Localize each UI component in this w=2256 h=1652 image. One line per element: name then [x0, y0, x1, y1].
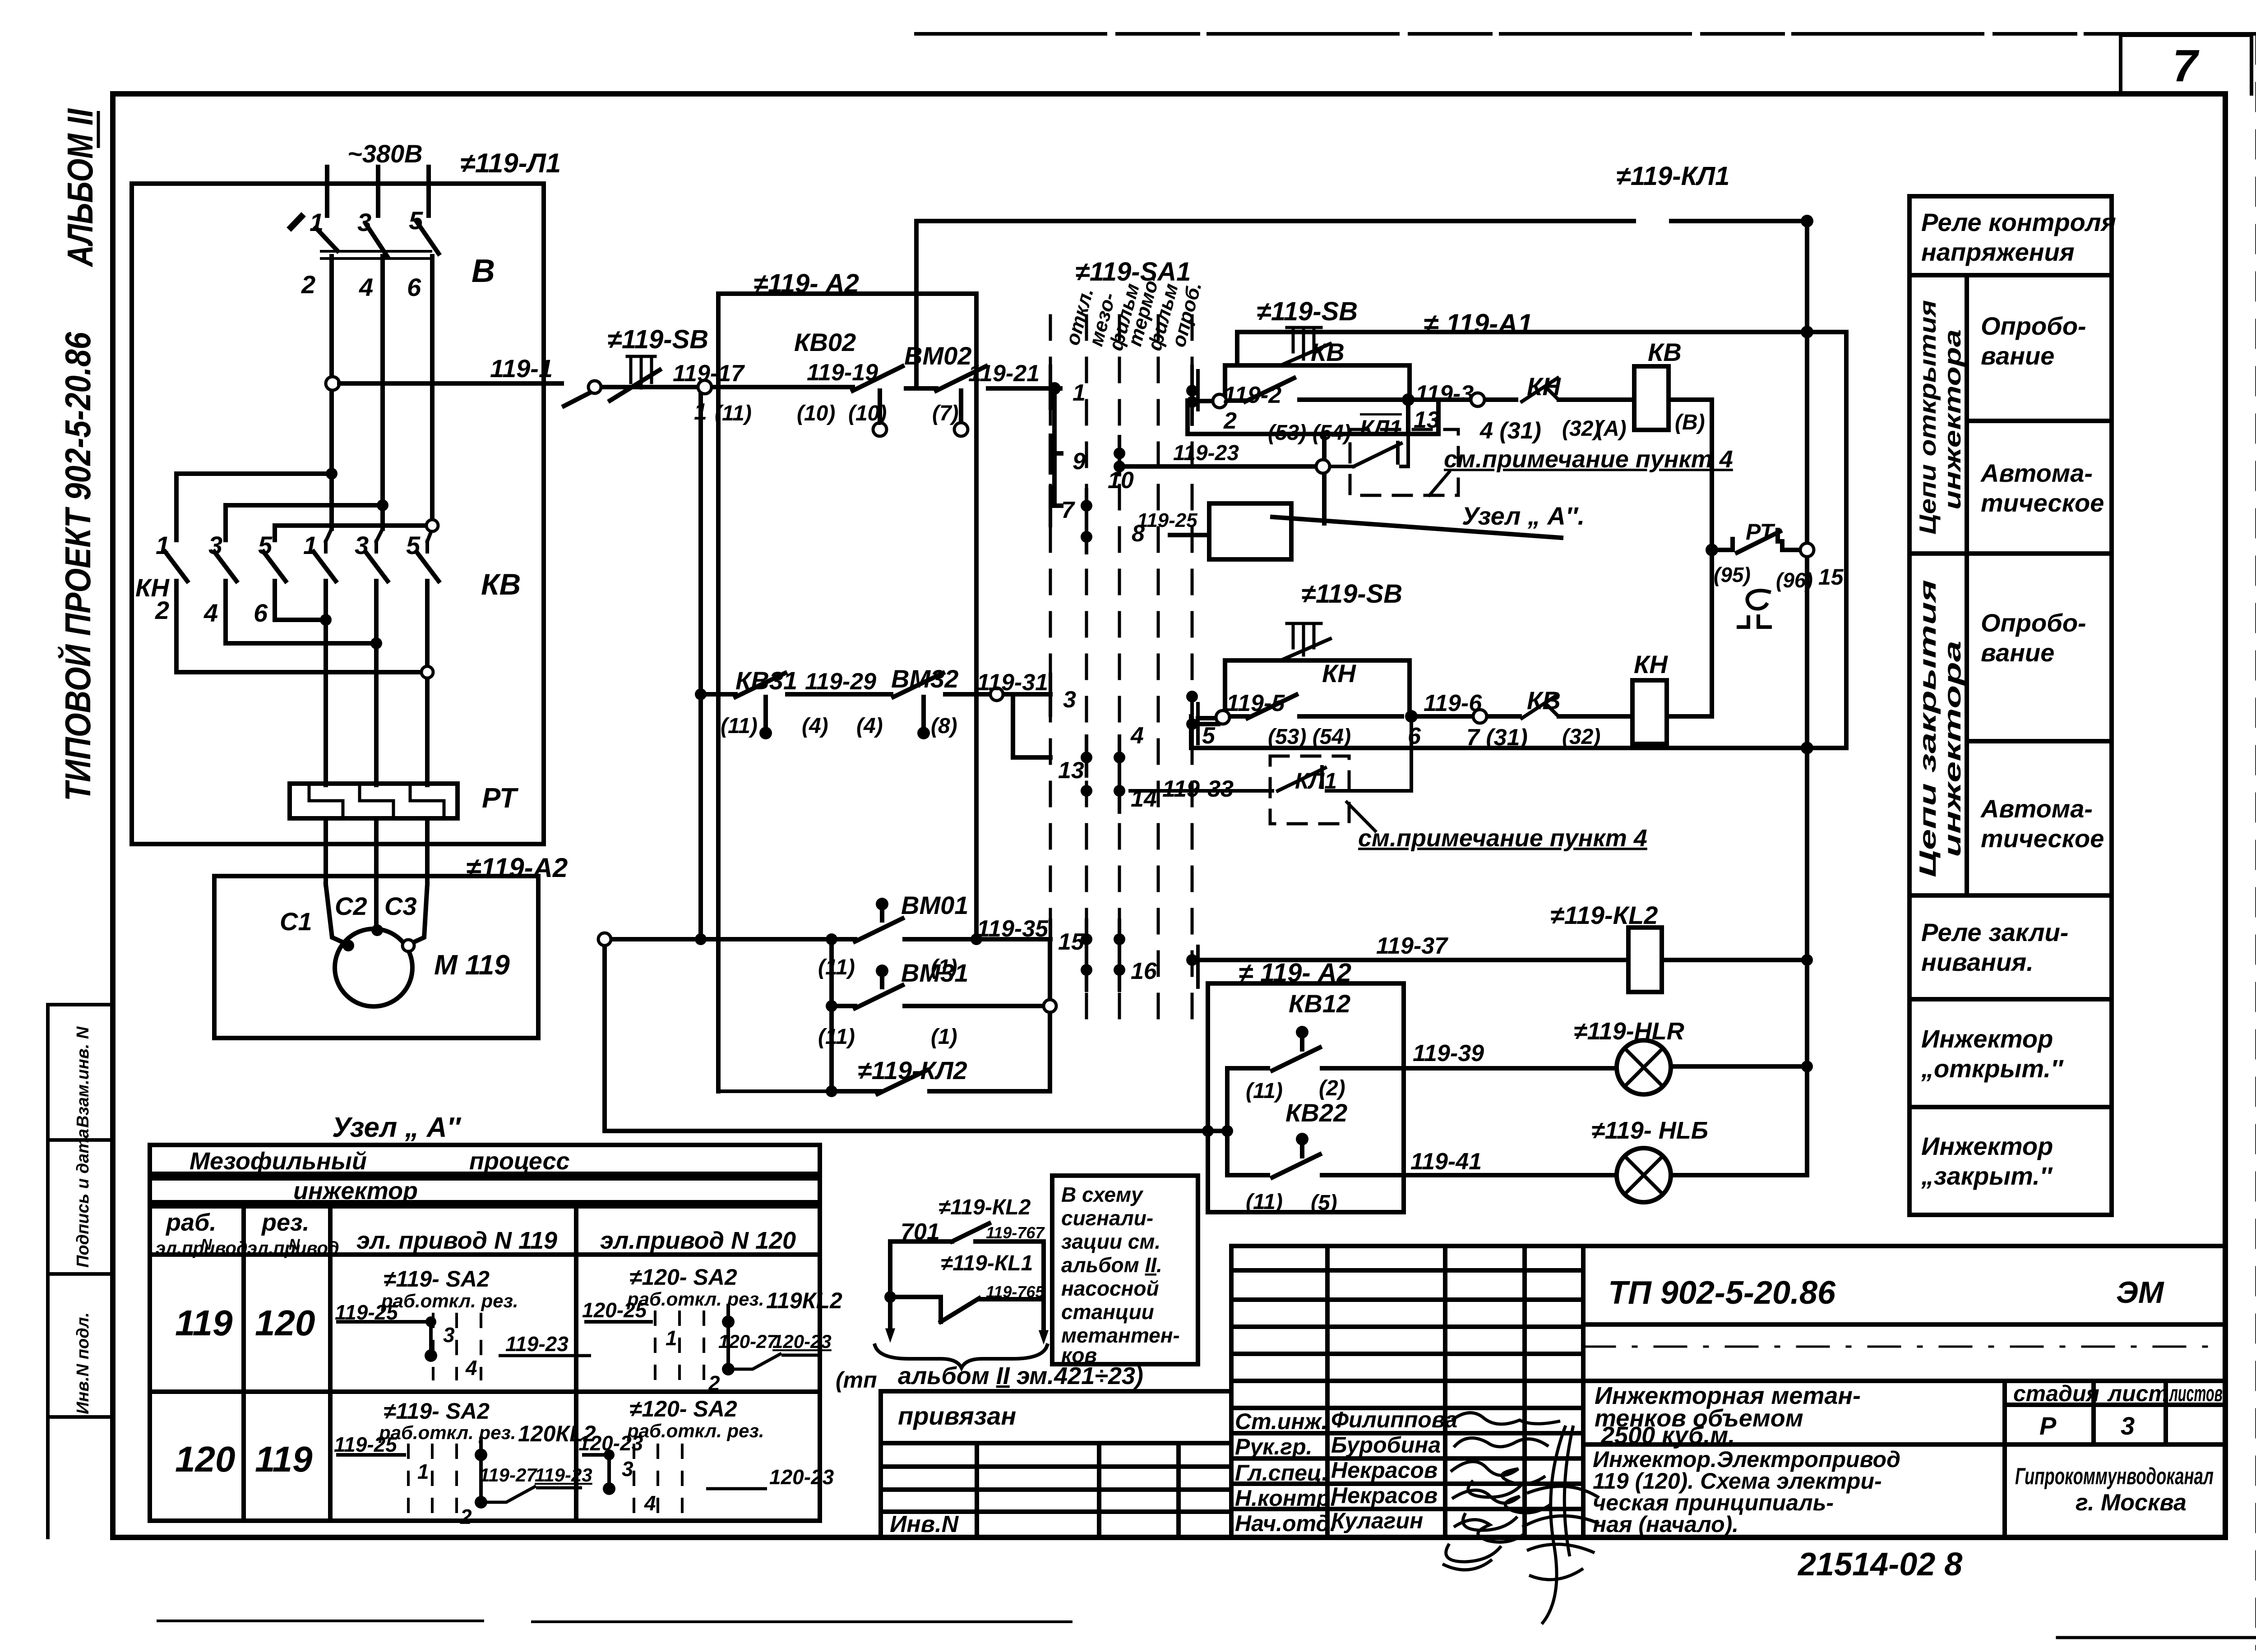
svg-text:2: 2: [1223, 408, 1237, 434]
svg-text:119-37: 119-37: [1376, 933, 1448, 959]
svg-text:С2: С2: [335, 892, 367, 920]
svg-text:сигнали-: сигнали-: [1061, 1206, 1153, 1230]
svg-text:(1): (1): [931, 1025, 957, 1049]
svg-text:15: 15: [1818, 564, 1844, 590]
svg-text:КВ: КВ: [1311, 338, 1345, 366]
svg-text:119-25: 119-25: [335, 1301, 398, 1324]
svg-text:раб.откл. рез.: раб.откл. рез.: [627, 1288, 764, 1310]
svg-text:КВ: КВ: [1527, 686, 1561, 715]
svg-text:см.примечание пункт 4: см.примечание пункт 4: [1358, 825, 1647, 852]
svg-text:(32): (32): [1562, 417, 1600, 441]
svg-text:Реле закли-: Реле закли-: [1921, 918, 2068, 946]
svg-text:120: 120: [255, 1303, 315, 1343]
svg-text:М 119: М 119: [434, 950, 510, 981]
svg-text:Гипрокоммунводоканал: Гипрокоммунводоканал: [2015, 1463, 2214, 1490]
svg-text:119-33: 119-33: [1162, 776, 1234, 802]
svg-text:ков: ков: [1061, 1343, 1097, 1367]
svg-text:4: 4: [465, 1356, 477, 1380]
svg-text:тическое: тическое: [1981, 824, 2104, 853]
svg-text:КН: КН: [1634, 650, 1668, 678]
svg-text:119-6: 119-6: [1424, 690, 1482, 716]
svg-text:6: 6: [407, 273, 421, 301]
svg-text:701: 701: [901, 1219, 940, 1245]
svg-text:лист: лист: [2107, 1381, 2168, 1406]
svg-text:АЛЬБОМ II: АЛЬБОМ II: [60, 108, 100, 268]
svg-text:инжектора: инжектора: [1940, 641, 1966, 857]
svg-text:(11): (11): [818, 955, 855, 979]
svg-text:эл. привод N 119: эл. привод N 119: [356, 1227, 557, 1254]
svg-text:15: 15: [1058, 929, 1085, 955]
svg-text:119-21: 119-21: [968, 360, 1040, 387]
svg-text:напряжения: напряжения: [1921, 238, 2075, 266]
svg-text:~380В: ~380В: [347, 139, 423, 168]
svg-text:(32): (32): [1562, 725, 1600, 749]
svg-text:Р: Р: [2039, 1412, 2057, 1440]
svg-text:≠119-КL2: ≠119-КL2: [938, 1195, 1031, 1219]
svg-text:Цепи открытия: Цепи открытия: [1915, 300, 1941, 535]
svg-text:3: 3: [622, 1457, 633, 1481]
svg-text:привязан: привязан: [898, 1402, 1016, 1430]
svg-text:119-767: 119-767: [986, 1223, 1045, 1242]
svg-text:Инв.N: Инв.N: [890, 1511, 959, 1537]
svg-text:21514-02 8: 21514-02 8: [1797, 1546, 1962, 1583]
svg-text:≠119- HLБ: ≠119- HLБ: [1591, 1117, 1708, 1144]
svg-text:ВМ02: ВМ02: [904, 341, 971, 370]
svg-text:КВ02: КВ02: [794, 328, 856, 356]
svg-text:Автома-: Автома-: [1980, 459, 2093, 487]
svg-text:1: 1: [310, 208, 324, 236]
svg-text:(5): (5): [1311, 1191, 1337, 1215]
svg-text:Автома-: Автома-: [1980, 794, 2093, 823]
svg-text:станции: станции: [1061, 1300, 1154, 1324]
svg-text:Кулагин: Кулагин: [1331, 1508, 1423, 1533]
svg-text:1: 1: [417, 1460, 429, 1483]
svg-text:Взам.инв. N: Взам.инв. N: [74, 1026, 92, 1128]
svg-text:3: 3: [355, 531, 369, 559]
svg-text:5: 5: [406, 531, 421, 559]
svg-text:≠120- SА2: ≠120- SА2: [629, 1396, 737, 1421]
svg-text:ная (начало).: ная (начало).: [1593, 1512, 1738, 1537]
svg-text:7 (31): 7 (31): [1466, 724, 1528, 751]
svg-text:≠119-SВ: ≠119-SВ: [607, 325, 708, 354]
svg-text:119-1: 119-1: [490, 354, 553, 383]
svg-text:119-19: 119-19: [807, 360, 878, 386]
svg-text:(11): (11): [1246, 1190, 1283, 1214]
svg-text:7: 7: [2173, 41, 2200, 91]
svg-text:см.примечание пункт 4: см.примечание пункт 4: [1444, 446, 1733, 473]
svg-text:119-25: 119-25: [334, 1433, 398, 1456]
svg-text:Нач.отд.: Нач.отд.: [1235, 1511, 1336, 1536]
svg-text:Опробо-: Опробо-: [1981, 312, 2086, 340]
svg-text:(2): (2): [1319, 1076, 1345, 1100]
svg-text:≠119- SА2: ≠119- SА2: [384, 1266, 490, 1292]
svg-text:ВМ01: ВМ01: [901, 891, 968, 919]
svg-text:(11): (11): [1246, 1079, 1283, 1103]
svg-text:(96): (96): [1776, 568, 1813, 592]
svg-text:119-39: 119-39: [1413, 1040, 1484, 1066]
svg-text:Буробина: Буробина: [1331, 1432, 1441, 1458]
svg-text:3: 3: [357, 208, 371, 236]
svg-text:4: 4: [1130, 723, 1144, 749]
svg-text:стадия: стадия: [2013, 1381, 2099, 1406]
svg-text:119-41: 119-41: [1410, 1149, 1482, 1175]
svg-text:3: 3: [208, 531, 222, 559]
svg-text:6: 6: [1408, 723, 1421, 749]
svg-text:119-23: 119-23: [535, 1464, 592, 1486]
svg-text:≠119-КL1: ≠119-КL1: [941, 1251, 1033, 1275]
svg-text:Подпись и дата: Подпись и дата: [74, 1129, 92, 1268]
svg-text:≠119-SB: ≠119-SB: [1257, 297, 1358, 326]
svg-text:≠119-КЛ2: ≠119-КЛ2: [858, 1056, 967, 1084]
svg-text:1: 1: [156, 531, 170, 559]
svg-text:раб.откл. рез.: раб.откл. рез.: [627, 1420, 764, 1441]
svg-text:Инжектор: Инжектор: [1921, 1024, 2053, 1053]
svg-text:(53) (54): (53) (54): [1268, 725, 1351, 749]
svg-text:Некрасов: Некрасов: [1331, 1483, 1438, 1508]
svg-text:119-27: 119-27: [479, 1464, 537, 1486]
svg-text:инжектор: инжектор: [293, 1177, 418, 1204]
svg-text:С1: С1: [280, 907, 312, 936]
svg-text:5: 5: [409, 206, 423, 235]
svg-text:В: В: [472, 253, 495, 289]
svg-text:(11): (11): [721, 714, 758, 738]
svg-text:КН: КН: [1322, 659, 1356, 688]
svg-text:9: 9: [1073, 448, 1086, 475]
svg-text:3: 3: [1063, 687, 1076, 713]
svg-text:119-25: 119-25: [1137, 509, 1197, 531]
svg-text:процесс: процесс: [469, 1148, 570, 1175]
svg-text:119-29: 119-29: [805, 669, 876, 695]
svg-text:120-23: 120-23: [772, 1331, 832, 1352]
svg-text:≠120- SА2: ≠120- SА2: [629, 1264, 737, 1290]
svg-text:2: 2: [708, 1371, 720, 1395]
svg-text:119КL2: 119КL2: [766, 1288, 842, 1313]
svg-text:ЭМ: ЭМ: [2116, 1275, 2164, 1310]
svg-text:≠119-А2: ≠119-А2: [466, 853, 568, 883]
svg-text:120-25: 120-25: [582, 1298, 647, 1322]
svg-text:КВ31: КВ31: [735, 666, 797, 695]
svg-text:≠119-КЛ1: ≠119-КЛ1: [1616, 162, 1729, 191]
svg-text:1: 1: [694, 399, 707, 425]
svg-text:5: 5: [258, 531, 273, 559]
svg-text:(11): (11): [818, 1025, 855, 1049]
svg-text:13: 13: [1414, 407, 1440, 433]
svg-text:≠ 119- А2: ≠ 119- А2: [1239, 958, 1351, 988]
svg-text:≠119- А2: ≠119- А2: [754, 269, 859, 298]
svg-text:4: 4: [203, 599, 218, 627]
svg-text:119-17: 119-17: [673, 360, 745, 387]
svg-text:Цепи закрытия: Цепи закрытия: [1915, 580, 1941, 877]
svg-text:≠119-HLR: ≠119-HLR: [1574, 1018, 1684, 1045]
svg-text:(10): (10): [848, 401, 887, 425]
svg-text:(53) (54): (53) (54): [1268, 421, 1351, 445]
svg-text:1: 1: [666, 1326, 677, 1350]
svg-text:Реле контроля: Реле контроля: [1921, 208, 2116, 236]
svg-text:120: 120: [175, 1439, 235, 1479]
svg-text:ТП 902-5-20.86: ТП 902-5-20.86: [1608, 1275, 1836, 1311]
svg-text:Инв.N подл.: Инв.N подл.: [74, 1312, 92, 1414]
svg-text:КВ: КВ: [481, 568, 521, 601]
svg-text:≠119-Л1: ≠119-Л1: [460, 148, 561, 178]
svg-text:119-765: 119-765: [986, 1283, 1045, 1301]
svg-text:эл.привод: эл.привод: [247, 1238, 339, 1258]
svg-text:119-35: 119-35: [977, 916, 1049, 942]
svg-text:ВМ31: ВМ31: [901, 959, 968, 987]
svg-text:3: 3: [443, 1323, 455, 1347]
svg-text:(4): (4): [802, 714, 828, 738]
svg-text:вание: вание: [1981, 638, 2054, 667]
svg-text:≠119-SА1: ≠119-SА1: [1075, 257, 1191, 286]
svg-text:(95): (95): [1714, 563, 1751, 586]
svg-text:119-23: 119-23: [1173, 441, 1239, 465]
svg-text:(В): (В): [1675, 411, 1705, 434]
svg-text:Ст.инж.: Ст.инж.: [1235, 1409, 1327, 1434]
svg-text:≠119-КL2: ≠119-КL2: [1550, 901, 1658, 929]
svg-text:7: 7: [1061, 497, 1075, 523]
svg-text:2500 куб.м.: 2500 куб.м.: [1600, 1422, 1735, 1449]
svg-text:10: 10: [1108, 467, 1134, 494]
svg-text:тическое: тическое: [1981, 489, 2104, 517]
svg-text:Мезофильный: Мезофильный: [190, 1148, 367, 1175]
svg-text:КВ12: КВ12: [1289, 989, 1350, 1018]
svg-text:119: 119: [255, 1439, 313, 1479]
svg-text:Н.контр.: Н.контр.: [1235, 1486, 1336, 1511]
svg-text:119-31: 119-31: [977, 669, 1048, 696]
svg-text:(4): (4): [856, 714, 883, 738]
svg-text:раб.откл. рез.: раб.откл. рез.: [381, 1290, 518, 1311]
svg-text:Опробо-: Опробо-: [1981, 609, 2086, 637]
svg-text:13: 13: [1058, 757, 1084, 784]
svg-text:Узел „ А″.: Узел „ А″.: [1462, 502, 1585, 530]
svg-text:(8): (8): [931, 714, 957, 738]
svg-text:раб.откл. рез.: раб.откл. рез.: [379, 1422, 516, 1443]
svg-text:1: 1: [303, 531, 317, 559]
svg-text:(10): (10): [797, 401, 835, 425]
svg-text:КВ: КВ: [1648, 338, 1682, 366]
svg-text:инжектора: инжектора: [1940, 329, 1966, 510]
svg-text:Филиппова: Филиппова: [1331, 1407, 1457, 1432]
svg-text:эл.привод N 120: эл.привод N 120: [600, 1227, 796, 1254]
svg-text:рез.: рез.: [261, 1209, 310, 1236]
svg-text:„закрыт.″: „закрыт.″: [1921, 1162, 2053, 1190]
svg-text:120-27: 120-27: [718, 1331, 778, 1352]
svg-text:119-3: 119-3: [1415, 381, 1474, 407]
svg-text:Рук.гр.: Рук.гр.: [1235, 1434, 1313, 1459]
svg-text:2: 2: [460, 1505, 472, 1528]
svg-text:4: 4: [359, 273, 373, 301]
svg-text:5: 5: [1202, 723, 1216, 749]
svg-text:КВ22: КВ22: [1285, 1098, 1347, 1127]
svg-text:≠119-SB: ≠119-SB: [1301, 579, 1402, 609]
svg-text:раб.: раб.: [165, 1209, 216, 1236]
svg-text:4: 4: [644, 1491, 656, 1515]
svg-text:2: 2: [155, 596, 169, 624]
svg-text:120-23: 120-23: [578, 1431, 643, 1455]
svg-text:листов: листов: [2169, 1381, 2223, 1406]
svg-text:нивания.: нивания.: [1921, 948, 2034, 976]
svg-text:„открыт.″: „открыт.″: [1921, 1054, 2064, 1083]
svg-text:119-23: 119-23: [505, 1332, 569, 1356]
svg-text:зации см.: зации см.: [1061, 1230, 1160, 1253]
svg-text:(11): (11): [715, 401, 752, 425]
svg-text:119: 119: [175, 1303, 233, 1343]
svg-text:ВМ32: ВМ32: [891, 664, 958, 693]
svg-text:КЛ1: КЛ1: [1295, 768, 1337, 794]
svg-text:≠119- SА2: ≠119- SА2: [384, 1398, 490, 1424]
svg-text:16: 16: [1131, 958, 1157, 984]
svg-text:(7): (7): [932, 401, 959, 425]
svg-text:(А): (А): [1596, 417, 1627, 441]
svg-text:С3: С3: [384, 892, 417, 920]
svg-text:РТ: РТ: [482, 783, 519, 814]
svg-text:ТИПОВОЙ ПРОЕКТ 902-5-20.86: ТИПОВОЙ ПРОЕКТ 902-5-20.86: [57, 332, 98, 801]
svg-text:насосной: насосной: [1061, 1277, 1159, 1300]
svg-text:РТ: РТ: [1746, 519, 1775, 545]
svg-text:6: 6: [254, 599, 268, 627]
svg-text:Узел „ А″: Узел „ А″: [332, 1112, 461, 1143]
svg-text:В схему: В схему: [1061, 1183, 1144, 1206]
svg-text:2: 2: [301, 270, 315, 299]
svg-text:КН: КН: [1527, 372, 1561, 401]
svg-text:3: 3: [2121, 1412, 2135, 1440]
svg-text:Гл.спец.: Гл.спец.: [1235, 1460, 1328, 1486]
svg-text:1: 1: [1073, 380, 1086, 406]
svg-text:(тп: (тп: [836, 1367, 877, 1393]
svg-text:КЛ1: КЛ1: [1360, 415, 1402, 441]
svg-text:вание: вание: [1981, 341, 2054, 370]
svg-text:г. Москва: г. Москва: [2076, 1490, 2187, 1516]
svg-text:119-5: 119-5: [1226, 690, 1285, 716]
svg-text:альбом II.: альбом II.: [1061, 1253, 1162, 1277]
svg-text:эл.привод: эл.привод: [156, 1238, 248, 1258]
svg-text:119-2: 119-2: [1223, 382, 1281, 408]
svg-text:Некрасов: Некрасов: [1331, 1458, 1438, 1483]
svg-text:4 (31): 4 (31): [1479, 418, 1541, 444]
svg-text:Инжектор: Инжектор: [1921, 1132, 2053, 1160]
svg-text:120-23: 120-23: [769, 1465, 834, 1489]
svg-text:≠ 119-А1: ≠ 119-А1: [1424, 309, 1533, 339]
